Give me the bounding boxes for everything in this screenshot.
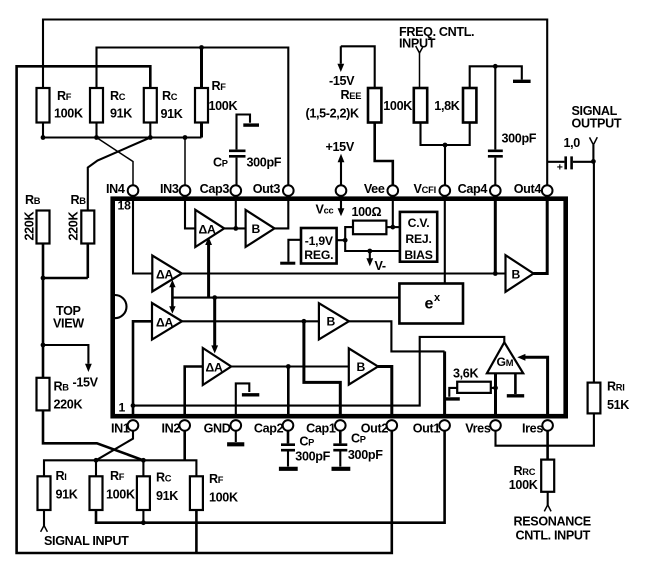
ground bar Cap3 (243, 123, 259, 126)
wire Cap4 internal drop (494, 200, 497, 274)
node dA4 output junction (286, 364, 291, 369)
svg-text:VIEW: VIEW (53, 317, 84, 331)
svg-text:VCFI: VCFI (414, 182, 436, 196)
resistor RRI 51K (588, 383, 601, 414)
wire output stem (592, 145, 594, 162)
wire output drop to RRI (593, 161, 595, 382)
wire node column x43 (42, 278, 45, 378)
svg-text:B: B (357, 360, 366, 374)
wire reg output node (337, 227, 400, 251)
node RF1 rail junction (41, 135, 46, 140)
ground bar Cp Cap2 (279, 467, 298, 471)
node reg output junction (343, 238, 348, 243)
arrowhead double up (169, 280, 175, 288)
wire RF4 bottom stub (200, 123, 203, 138)
wire RRC to resonance terminal (547, 492, 549, 506)
op-amp B1 (246, 210, 275, 247)
svg-text:RC: RC (162, 89, 178, 103)
wire IN1 to dA3 input (133, 321, 152, 414)
wire dA1 control shaft (207, 245, 210, 298)
svg-text:GND: GND (204, 422, 231, 436)
wire Cap3 stub (235, 158, 237, 186)
pin IN2 (179, 420, 190, 431)
svg-text:100K: 100K (209, 99, 238, 113)
op-amp dA4 (203, 348, 231, 385)
svg-text:Ires: Ires (522, 422, 543, 436)
node W1 RC junction (141, 520, 146, 525)
resistor RI 91K (38, 476, 51, 510)
node RC3 rail junction (148, 135, 153, 140)
wire REE bottom to Vee (375, 123, 393, 186)
ground bar top right (513, 80, 531, 83)
svg-text:CP: CP (213, 156, 228, 170)
wire IN2 to dA4 input (185, 367, 203, 415)
resistor RC3 91K (144, 88, 157, 123)
svg-text:91K: 91K (156, 489, 178, 503)
capacitor 1,0 plates (566, 156, 572, 169)
wire dA4 control shaft (213, 298, 216, 346)
wire Bmid output to Out1 (349, 321, 445, 351)
box exp (399, 284, 463, 324)
wire freq input to 100K (419, 53, 421, 88)
svg-text:REJ.: REJ. (405, 232, 431, 246)
resistor RF 100K bottom2 (90, 476, 103, 510)
wire GND internal ground (236, 383, 250, 414)
node Vcfi resistors junction (443, 143, 448, 148)
svg-text:CNTL. INPUT: CNTL. INPUT (516, 529, 591, 543)
wire Out1 internal drop (443, 351, 446, 414)
node RF4 top junction (199, 45, 204, 50)
node V- junction (367, 249, 372, 254)
ground bar GND external (227, 442, 244, 446)
svg-text:INPUT: INPUT (399, 37, 436, 51)
svg-text:ΔA: ΔA (206, 361, 224, 375)
IC notch (115, 295, 127, 318)
pin Cap1 (335, 420, 346, 431)
wire IN3 to dA1 input (185, 200, 195, 228)
node IN1 rail junction (131, 403, 136, 408)
wire RB3 to bottom X (43, 410, 143, 460)
pin Cap2 (283, 420, 294, 431)
wire top feedback Out4 to RF1 (43, 20, 547, 186)
resistor RB3 220K (37, 378, 50, 411)
svg-text:+15V: +15V (326, 140, 355, 154)
wire IN3 drop (184, 138, 186, 186)
node RB join junction (41, 276, 46, 281)
svg-text:1,8K: 1,8K (434, 99, 459, 113)
svg-text:SIGNAL INPUT: SIGNAL INPUT (44, 534, 129, 548)
svg-text:220K: 220K (67, 212, 81, 241)
terminal signal input fork (41, 526, 48, 532)
wire reg box ground (288, 240, 301, 262)
wire -15V to REE top (341, 46, 375, 88)
resistor RF1 100K (37, 88, 50, 123)
svg-text:100K: 100K (106, 488, 135, 502)
svg-text:100K: 100K (509, 478, 538, 492)
svg-text:-15V: -15V (329, 74, 355, 88)
arrowhead GM input left (517, 354, 525, 361)
svg-text:RC: RC (156, 471, 172, 485)
wire Ires to RRC (546, 431, 549, 460)
svg-text:300pF: 300pF (247, 156, 282, 170)
ground bar 3.6K (444, 397, 460, 400)
wire dA3 output to Bmid (182, 320, 319, 322)
svg-text:220K: 220K (54, 398, 83, 412)
svg-text:CP: CP (351, 432, 366, 446)
svg-text:BIAS: BIAS (404, 248, 432, 262)
svg-text:91K: 91K (110, 106, 132, 120)
wire Vcfi drop to exp box (444, 200, 446, 284)
svg-text:100K: 100K (54, 106, 83, 120)
svg-text:OUTPUT: OUTPUT (572, 117, 622, 131)
pin GND (231, 420, 242, 431)
svg-text:IN2: IN2 (161, 422, 180, 436)
node dA1 output junction (233, 226, 238, 231)
wire B4 output to Out4 (534, 200, 548, 274)
node IN3 rail junction (183, 135, 188, 140)
ground bar Cp Cap1 (332, 467, 351, 471)
resistor 3,6K (457, 382, 491, 393)
wire Cap3 ground elbow (237, 115, 251, 150)
pin Out2 (387, 420, 398, 431)
svg-text:91K: 91K (56, 488, 78, 502)
svg-text:x: x (434, 292, 441, 304)
arrowhead dA4 control down (211, 345, 218, 353)
wire GM right leg (514, 373, 517, 394)
node dA3 output junction (302, 319, 307, 324)
svg-text:100K: 100K (209, 491, 238, 505)
capacitor Cp Cap3 plates (229, 151, 246, 157)
pin Ires (542, 420, 553, 431)
svg-text:IN1: IN1 (111, 422, 130, 436)
wire IN1 diagonal (96, 431, 133, 461)
svg-text:Vcc: Vcc (316, 203, 334, 217)
svg-text:RF: RF (57, 89, 72, 103)
wire node W1 Out1 feedback rail (96, 431, 445, 523)
svg-text:300pF: 300pF (348, 448, 383, 462)
box C.V. REJ. BIAS (400, 212, 437, 262)
svg-text:Out2: Out2 (361, 422, 389, 436)
wire Ires to GM arrow (525, 357, 548, 414)
svg-text:Out4: Out4 (514, 182, 542, 196)
resistor RB1 220K (37, 211, 50, 244)
wire 100ohm to bias box (386, 226, 400, 228)
capacitor Cp Cap2 plates (281, 445, 295, 451)
resistor RF 100K bottom4 (190, 476, 203, 510)
node RC2 rail junction (94, 135, 99, 140)
wire 1.8K top to ground (470, 66, 522, 88)
arrowhead +15V up (338, 154, 345, 163)
wire node control rail (172, 297, 399, 299)
op-amp B4 (506, 255, 534, 292)
svg-text:220K: 220K (23, 212, 37, 241)
resistor RC2 91K (90, 88, 103, 123)
wire GND external stub (235, 431, 237, 442)
wire Blow output to Out2 (378, 367, 392, 415)
wire IN2 down (183, 431, 186, 461)
wire diagonal RC3 to RB2 (88, 138, 151, 211)
pin Cap4 (490, 185, 501, 196)
svg-text:GM: GM (497, 355, 514, 369)
ground bar reg (280, 262, 295, 265)
IC package outline (113, 199, 566, 417)
resistor REE (368, 88, 381, 123)
svg-text:RF: RF (110, 469, 125, 483)
pin Vcfi (440, 185, 451, 196)
svg-text:Out3: Out3 (253, 182, 281, 196)
svg-text:B: B (252, 222, 261, 236)
op-amp dA2 (152, 256, 182, 292)
wire RI to signal input terminal (43, 510, 45, 526)
svg-text:100Ω: 100Ω (352, 205, 382, 219)
wire node Cap4 column (494, 66, 496, 185)
pin Out1 (439, 420, 450, 431)
wire 100K 1.8K bottoms to Vcfi (421, 123, 470, 186)
wire GM left leg to Vres (494, 373, 497, 414)
svg-text:e: e (425, 296, 434, 313)
wire Vee internal drop (392, 200, 394, 227)
arrowhead dA1 control up (205, 237, 212, 245)
svg-text:RB: RB (25, 193, 41, 207)
wire RC bottom stub (142, 510, 144, 523)
transconductance amp GM (487, 342, 523, 373)
svg-text:ΔA: ΔA (199, 223, 217, 237)
svg-text:C.V.: C.V. (408, 216, 430, 230)
wire Cap2 internal drop (287, 367, 290, 415)
op-amp dA1 (195, 210, 224, 247)
wire node rail y137 (43, 123, 202, 138)
op-amp dA3 (152, 303, 182, 340)
svg-text:RI: RI (56, 469, 67, 483)
wire 3.6K right (491, 387, 496, 389)
svg-text:Vee: Vee (364, 182, 385, 196)
svg-text:RRC: RRC (514, 464, 536, 478)
pin Vcc (336, 185, 347, 196)
node 1,8K ground junction (493, 64, 498, 69)
svg-text:1,0: 1,0 (564, 136, 581, 150)
arrowhead double down (169, 306, 175, 313)
ground bar GND internal (242, 393, 259, 396)
wire Vcc arrow internal (340, 200, 342, 209)
wire RF4 top stub (200, 48, 203, 89)
resistor RC 91K bottom3 (137, 476, 150, 510)
wire RB1 RB2 join (43, 244, 88, 279)
node output terminal junction (591, 159, 596, 164)
svg-text:REE: REE (341, 88, 362, 102)
svg-text:Cap2: Cap2 (254, 422, 284, 436)
svg-text:100K: 100K (383, 99, 412, 113)
resistor 100 ohm (353, 221, 386, 235)
svg-text:-15V: -15V (73, 376, 99, 390)
wire Cp Cap1 to ground (339, 451, 341, 466)
wire dA2 output to B4 (182, 272, 506, 274)
wire diagonal RC2 to IN4 (97, 138, 134, 186)
terminal signal output fork (590, 137, 598, 145)
svg-text:91K: 91K (161, 107, 183, 121)
svg-text:CP: CP (299, 435, 314, 449)
svg-text:Out1: Out1 (413, 422, 441, 436)
svg-text:3,6K: 3,6K (453, 367, 478, 381)
op-amp Bmid (319, 303, 349, 339)
pin Vee (388, 185, 399, 196)
svg-text:REG.: REG. (304, 248, 333, 262)
svg-text:Cap3: Cap3 (200, 182, 230, 196)
arrowhead -15V left (85, 364, 92, 372)
wire -15V branch left (43, 345, 88, 364)
wire 3.6K left to ground (449, 388, 457, 397)
wire +15V arrow (340, 162, 342, 185)
svg-text:RRI: RRI (607, 380, 625, 394)
node Cap4 junction (493, 271, 498, 276)
op-amp Blow (349, 348, 378, 384)
svg-text:ΔA: ΔA (156, 268, 174, 282)
wire Cap2 Cp stub (287, 431, 290, 444)
pin Vres (490, 420, 501, 431)
terminal freq cntl input fork (416, 46, 424, 53)
terminal resonance input fork (544, 505, 551, 512)
node Vee 100ohm junction (390, 225, 395, 230)
wire V- arrow (369, 251, 371, 260)
resistor 1,8K (463, 88, 476, 123)
capacitor Cp Cap1 plates (333, 445, 347, 451)
svg-text:IN3: IN3 (160, 182, 179, 196)
node bottom rail RC junction (141, 458, 146, 463)
wire node Cap1 branch (304, 321, 340, 414)
node bottom rail RF junction (94, 458, 99, 463)
svg-text:300pF: 300pF (295, 450, 330, 464)
svg-text:B: B (512, 268, 521, 282)
svg-text:18: 18 (118, 199, 132, 213)
resistor 100K freq (414, 88, 427, 123)
resistor RF4 100K (195, 88, 208, 123)
svg-text:ΔA: ΔA (156, 316, 174, 330)
svg-text:V-: V- (375, 259, 386, 273)
wire RF4b bottom to W2 (195, 510, 198, 553)
wire node IN1 rail to GM apex (133, 337, 504, 406)
arrowhead Vcc down (338, 208, 345, 216)
pin Out4 (542, 185, 553, 196)
wire RRI bottom to Vres (496, 413, 594, 445)
pin IN3 (180, 185, 191, 196)
pin IN4 (128, 185, 139, 196)
svg-text:(1,5-2,2)K: (1,5-2,2)K (306, 107, 359, 121)
wire Cp Cap2 to ground (287, 451, 289, 466)
svg-text:-1,9V: -1,9V (305, 234, 334, 248)
svg-text:Cap4: Cap4 (458, 182, 488, 196)
svg-text:1: 1 (119, 401, 126, 415)
resistor RRC 100K (541, 460, 554, 492)
pin Cap3 (231, 185, 242, 196)
wire dA1 output to B1 (224, 200, 245, 228)
svg-text:RF: RF (212, 79, 227, 93)
wire node rail y460 (44, 460, 196, 476)
wire IN4 to dA2 input (133, 200, 152, 274)
svg-text:RF: RF (209, 472, 224, 486)
capacitor 300pF Cap4 plates (488, 151, 503, 157)
svg-text:RB: RB (71, 193, 87, 207)
wire Cap1 Cp stub (339, 431, 342, 444)
wire Out3 to RC2 top (97, 48, 289, 186)
wire double arrow dA2 dA3 (171, 285, 174, 309)
svg-text:Vres: Vres (465, 422, 491, 436)
svg-text:RB: RB (54, 380, 70, 394)
arrowhead V- down (366, 258, 373, 266)
wire left loop RC3 top to Out2 via bottom (17, 66, 392, 553)
svg-text:RC: RC (110, 89, 126, 103)
svg-text:51K: 51K (607, 398, 629, 412)
box -1,9V REG (301, 228, 337, 264)
pin IN1 (128, 420, 139, 431)
svg-text:RESONANCE: RESONANCE (514, 515, 591, 529)
node -15V branch junction (41, 343, 46, 348)
svg-text:IN4: IN4 (106, 182, 125, 196)
node 3,6K Vres junction (493, 386, 498, 391)
resistor RB2 220K (81, 211, 94, 244)
ground bar GM (507, 394, 524, 397)
svg-text:300pF: 300pF (502, 132, 537, 146)
wire dA4 output to Blow (231, 365, 349, 367)
arrowhead -15V top (337, 64, 344, 72)
svg-text:Cap1: Cap1 (306, 422, 336, 436)
node dA4 control junction (212, 295, 217, 300)
pin Out3 (283, 185, 294, 196)
svg-text:B: B (327, 315, 336, 329)
wire B1 output to Out3 (275, 200, 289, 228)
capacitor 1,0 output (547, 161, 593, 163)
svg-text:+: + (557, 162, 563, 174)
